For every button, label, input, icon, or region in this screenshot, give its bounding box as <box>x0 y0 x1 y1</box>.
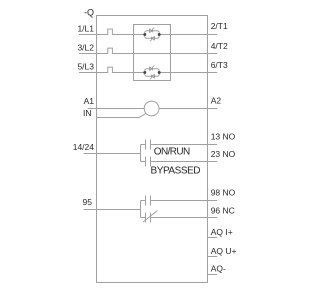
junction dot L1 right <box>158 33 161 36</box>
thyristor V1 (top, right-pointing) <box>150 28 155 33</box>
contact NC to 96 <box>141 213 218 223</box>
wire 14/24 input <box>84 145 141 162</box>
wire A1 to circle <box>88 108 145 110</box>
wire circle to A2 <box>159 108 217 110</box>
svg-text:13 NO: 13 NO <box>211 132 236 142</box>
wire 1/L1 row with terminal notch <box>79 29 217 34</box>
svg-text:14/24: 14/24 <box>73 142 95 152</box>
contact NO to 98 <box>141 196 218 206</box>
thyristor module box <box>134 25 171 81</box>
thyristor pair W1 loop <box>145 31 159 39</box>
stub AQ U+ <box>208 256 218 258</box>
wire IN <box>97 113 146 117</box>
thyristor V2 (bottom, left-pointing) <box>150 37 155 42</box>
svg-text:95: 95 <box>83 197 93 207</box>
svg-text:98 NO: 98 NO <box>211 188 236 198</box>
svg-text:-Q: -Q <box>84 7 94 17</box>
device outline box -Q <box>97 16 208 283</box>
junction dot L3 left <box>143 71 146 74</box>
wire 5/L3 row with terminal notch <box>79 67 217 72</box>
stub AQ I+ <box>208 237 218 239</box>
svg-text:5/L3: 5/L3 <box>77 62 94 72</box>
thyristor V4 (bottom, left-pointing) <box>150 75 155 80</box>
contact BYPASSED (NO) to 23 <box>141 157 218 167</box>
svg-text:BYPASSED: BYPASSED <box>151 165 201 176</box>
svg-text:AQ U+: AQ U+ <box>211 246 237 256</box>
svg-text:4/T2: 4/T2 <box>211 41 228 51</box>
svg-text:2/T1: 2/T1 <box>211 21 228 31</box>
svg-text:3/L2: 3/L2 <box>77 43 94 53</box>
svg-text:AQ I+: AQ I+ <box>211 227 233 237</box>
svg-text:1/L1: 1/L1 <box>77 23 94 33</box>
wire 3/L2 row with terminal notch <box>79 48 217 53</box>
contact ON/RUN (NO) to 13 <box>141 140 218 150</box>
wire 95 input <box>84 201 141 218</box>
svg-text:23 NO: 23 NO <box>211 149 236 159</box>
junction dot L1 left <box>143 33 146 36</box>
thyristor V3 (top, right-pointing) <box>150 66 155 71</box>
svg-text:AQ-: AQ- <box>211 264 226 274</box>
svg-text:6/T3: 6/T3 <box>211 60 228 70</box>
svg-text:A1: A1 <box>84 96 95 106</box>
svg-text:ON/RUN: ON/RUN <box>154 146 190 157</box>
svg-text:A2: A2 <box>211 96 222 106</box>
svg-text:96 NC: 96 NC <box>211 206 235 216</box>
thyristor pair W2 loop <box>145 69 159 77</box>
junction dot L3 right <box>158 71 161 74</box>
NC slash <box>143 211 157 222</box>
svg-text:IN: IN <box>83 108 92 118</box>
control unit circle <box>144 101 159 116</box>
stub AQ- <box>208 274 218 276</box>
